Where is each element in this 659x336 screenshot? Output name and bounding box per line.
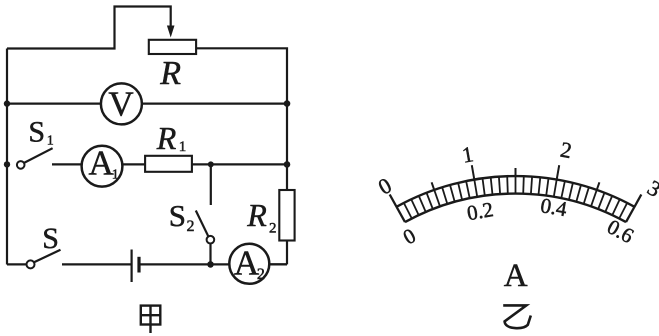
svg-text:A: A xyxy=(89,144,115,183)
svg-text:V: V xyxy=(108,85,133,124)
svg-text:0.4: 0.4 xyxy=(539,193,569,221)
svg-text:R: R xyxy=(159,55,181,92)
svg-text:2: 2 xyxy=(187,218,195,235)
svg-text:S: S xyxy=(169,198,186,233)
svg-text:0.2: 0.2 xyxy=(465,197,495,225)
svg-text:S: S xyxy=(42,222,59,255)
svg-text:1: 1 xyxy=(47,134,54,149)
svg-text:1: 1 xyxy=(179,139,187,155)
svg-text:2: 2 xyxy=(257,266,265,283)
svg-text:1: 1 xyxy=(112,168,119,183)
svg-text:2: 2 xyxy=(269,221,277,237)
svg-text:S: S xyxy=(28,116,45,149)
svg-text:A: A xyxy=(504,258,528,294)
svg-text:R: R xyxy=(156,120,177,156)
svg-text:R: R xyxy=(246,197,267,233)
